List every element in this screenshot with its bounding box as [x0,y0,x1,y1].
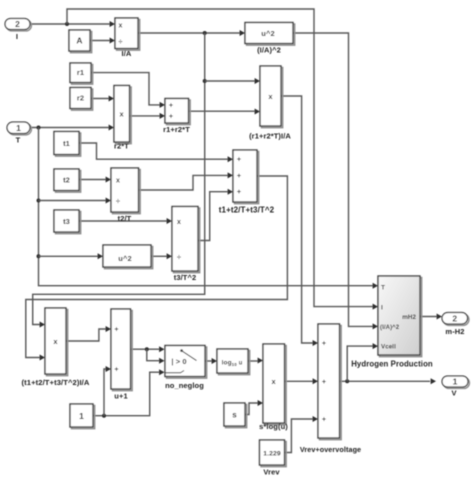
svg-text:x: x [272,377,277,386]
wire I/A output to u^2 [138,32,240,34]
svg-text:r2: r2 [77,94,84,103]
subsystem Hydrogen Production [378,276,422,357]
wire t3 to divide t3/T^2 input 1 [79,220,167,222]
outport 1 (V) [442,376,469,388]
svg-text:Vrev+overvoltage: Vrev+overvoltage [300,445,361,454]
wire constant 1 branch to sum u+1 input 2 [104,369,106,416]
svg-text:r1: r1 [77,68,84,77]
wire log10 output to product s*log(u) input 1 [248,360,258,362]
svg-text:2: 2 [15,19,20,29]
product r2*T [114,86,131,144]
svg-text:x: x [116,177,120,184]
wire Hydrogen Production output mH2 to outport m-H2 [420,316,437,318]
wire sum t1+t2/T+t3/T^2 output to product (t1+t2/T+t3/T^2)I/A input 2 [26,176,288,358]
svg-text:x: x [119,23,123,30]
math function u^2 lower [103,245,153,269]
wire t3/T^2 output to sum t1+t2/T+t3/T^2 input 3 [198,192,228,241]
wire sum u+1 output to switch no_neglog input 1 [131,348,160,350]
sum r1+r2*T [165,99,190,125]
wire r2*T output to sum r1+r2*T input 2 [130,115,160,117]
wire A to divide I/A input 2 [90,40,110,42]
constant r1 [70,63,93,84]
svg-text:1: 1 [79,411,84,421]
svg-text:I/A: I/A [122,49,132,58]
constant A [69,30,92,53]
svg-text:s*log(u): s*log(u) [259,422,288,431]
svg-text:V: V [451,389,456,398]
svg-text:t3: t3 [63,217,70,226]
wire product (r1+r2*T)I/A output to sum Vrev+overvoltage input 1 [281,96,313,343]
svg-text:+: + [237,173,241,180]
svg-text:s: s [232,410,237,419]
divide t2/T [111,168,140,214]
svg-text:+: + [169,103,173,110]
math function log10 [217,349,250,375]
wire I branch: up over top to Hydrogen Production input I [67,9,373,307]
svg-text:T: T [16,136,21,145]
svg-text:÷: ÷ [118,37,122,46]
constant t3 [54,210,81,234]
svg-text:u^2: u^2 [261,29,274,38]
svg-text:+: + [114,327,118,334]
svg-text:I: I [16,32,18,41]
constant s [224,403,247,428]
constant r2 [70,88,93,111]
wire r1 to sum r1+r2*T input 1 [91,73,160,105]
svg-text:1.229: 1.229 [263,451,281,458]
svg-text:+: + [322,379,326,386]
svg-text:r2*T: r2*T [114,142,129,151]
sum t1+t2/T+t3/T^2 [233,150,259,204]
svg-text:+: + [169,114,173,121]
sum Vrev+overvoltage [318,324,341,440]
svg-text:+: + [322,417,326,424]
svg-text:÷: ÷ [177,252,181,261]
svg-text:1: 1 [16,123,21,133]
svg-text:÷: ÷ [116,196,120,205]
svg-text:T: T [381,285,385,292]
svg-text:r1+r2*T: r1+r2*T [163,125,190,134]
wire t2/T output to sum t1+t2/T+t3/T^2 input 2 [139,175,228,190]
wire sum r1+r2*T output to product (r1+r2*T)I/A input 2 [189,110,255,112]
wire r2 to product r2*T input 1 [91,98,109,100]
constant 1.229 Vrev [260,440,287,467]
svg-text:A: A [76,36,82,46]
wire T: inport 1 to product r2*T input 2 [30,127,109,129]
wire I/A branch down-left to product (t1+t2/T+t3/T^2)I/A input 1 [33,33,205,325]
svg-text:m-H2: m-H2 [445,327,464,336]
wire Vcell branch up to Hydrogen Production input 4 [347,346,372,381]
svg-text:| > 0: | > 0 [171,357,186,366]
svg-text:+: + [237,157,241,164]
svg-text:Vcell: Vcell [381,344,396,351]
wire I/A branch to product (r1+r2*T)I/A input 1 [205,80,255,82]
wire constant 1.229 Vrev to sum Vrev+overvoltage input 3 [285,419,313,453]
wire s to product s*log(u) input 2 [245,403,258,415]
math function u^2 (I/A)^2 [245,23,295,46]
svg-text:t2: t2 [63,176,70,185]
switch no_neglog [165,346,207,379]
svg-text:(t1+t2/T+t3/T^2)I/A: (t1+t2/T+t3/T^2)I/A [22,378,90,387]
svg-text:(I/A)^2: (I/A)^2 [380,325,400,331]
svg-text:t1: t1 [63,139,70,148]
wire constant 1 to switch no_neglog input 3 [93,372,159,416]
svg-text:t1+t2/T+t3/T^2: t1+t2/T+t3/T^2 [219,206,275,215]
inport 1 (T) [7,122,31,135]
svg-text:+: + [114,367,118,374]
wire t2 to divide t2/T input 1 [79,179,106,181]
svg-text:x: x [53,337,58,346]
svg-text:Vrev: Vrev [263,468,280,477]
svg-text:t2/T: t2/T [118,214,132,223]
divide t3/T^2 [172,207,200,273]
constant t1 [54,132,81,157]
divide U1 I/A [115,18,140,50]
svg-text:2: 2 [452,313,457,323]
product (r1+r2*T)I/A [260,66,283,128]
svg-text:1: 1 [453,377,458,387]
wire product s*log(u) output to sum Vrev+overvoltage input 2 [285,380,313,382]
svg-text:Hydrogen Production: Hydrogen Production [351,360,433,369]
svg-text:+: + [237,189,241,196]
inport 2 (I) [5,19,31,31]
wire T branch to u^2 lower [39,255,98,257]
svg-text:x: x [120,110,125,119]
svg-text:u+1: u+1 [114,392,127,401]
wire sum u+1 branch to switch no_neglog input 2 [147,349,159,361]
wire I: inport 2 to divide I/A input 1 [30,23,110,25]
wire (I/A)^2 to Hydrogen Production input 3 [293,33,373,326]
constant t2 [54,169,81,192]
wire u^2 lower output to divide t3/T^2 input 2 [151,255,167,257]
svg-text:+: + [322,341,326,348]
svg-text:I: I [381,305,383,312]
svg-text:(r1+r2*T)I/A: (r1+r2*T)I/A [249,132,291,141]
product (t1+t2/T+t3/T^2)I/A [45,308,68,376]
outport 2 (m-H2) [442,313,469,326]
wire T branch to divide t2/T input 2 [39,200,106,202]
svg-text:t3/T^2: t3/T^2 [174,273,197,282]
svg-text:x: x [268,92,273,101]
wire product (t1+t2/T+t3/T^2)I/A output to sum u+1 input 1 [66,329,106,341]
wire T branch down to Hydrogen Production input T [39,128,373,286]
wire t1 to sum t1+t2/T+t3/T^2 input 1 [79,143,228,159]
sum u+1 [111,309,132,391]
svg-text:no_neglog: no_neglog [165,381,204,390]
product s*log(u) [263,344,286,425]
svg-text:x: x [177,219,181,226]
svg-text:mH2: mH2 [402,314,416,321]
constant 1 [70,404,95,429]
wire sum Vrev+overvoltage output to outport V [340,380,431,382]
svg-text:u^2: u^2 [118,254,131,263]
svg-text:(I/A)^2: (I/A)^2 [257,46,281,55]
wire switch no_neglog output to log10 [205,360,212,362]
